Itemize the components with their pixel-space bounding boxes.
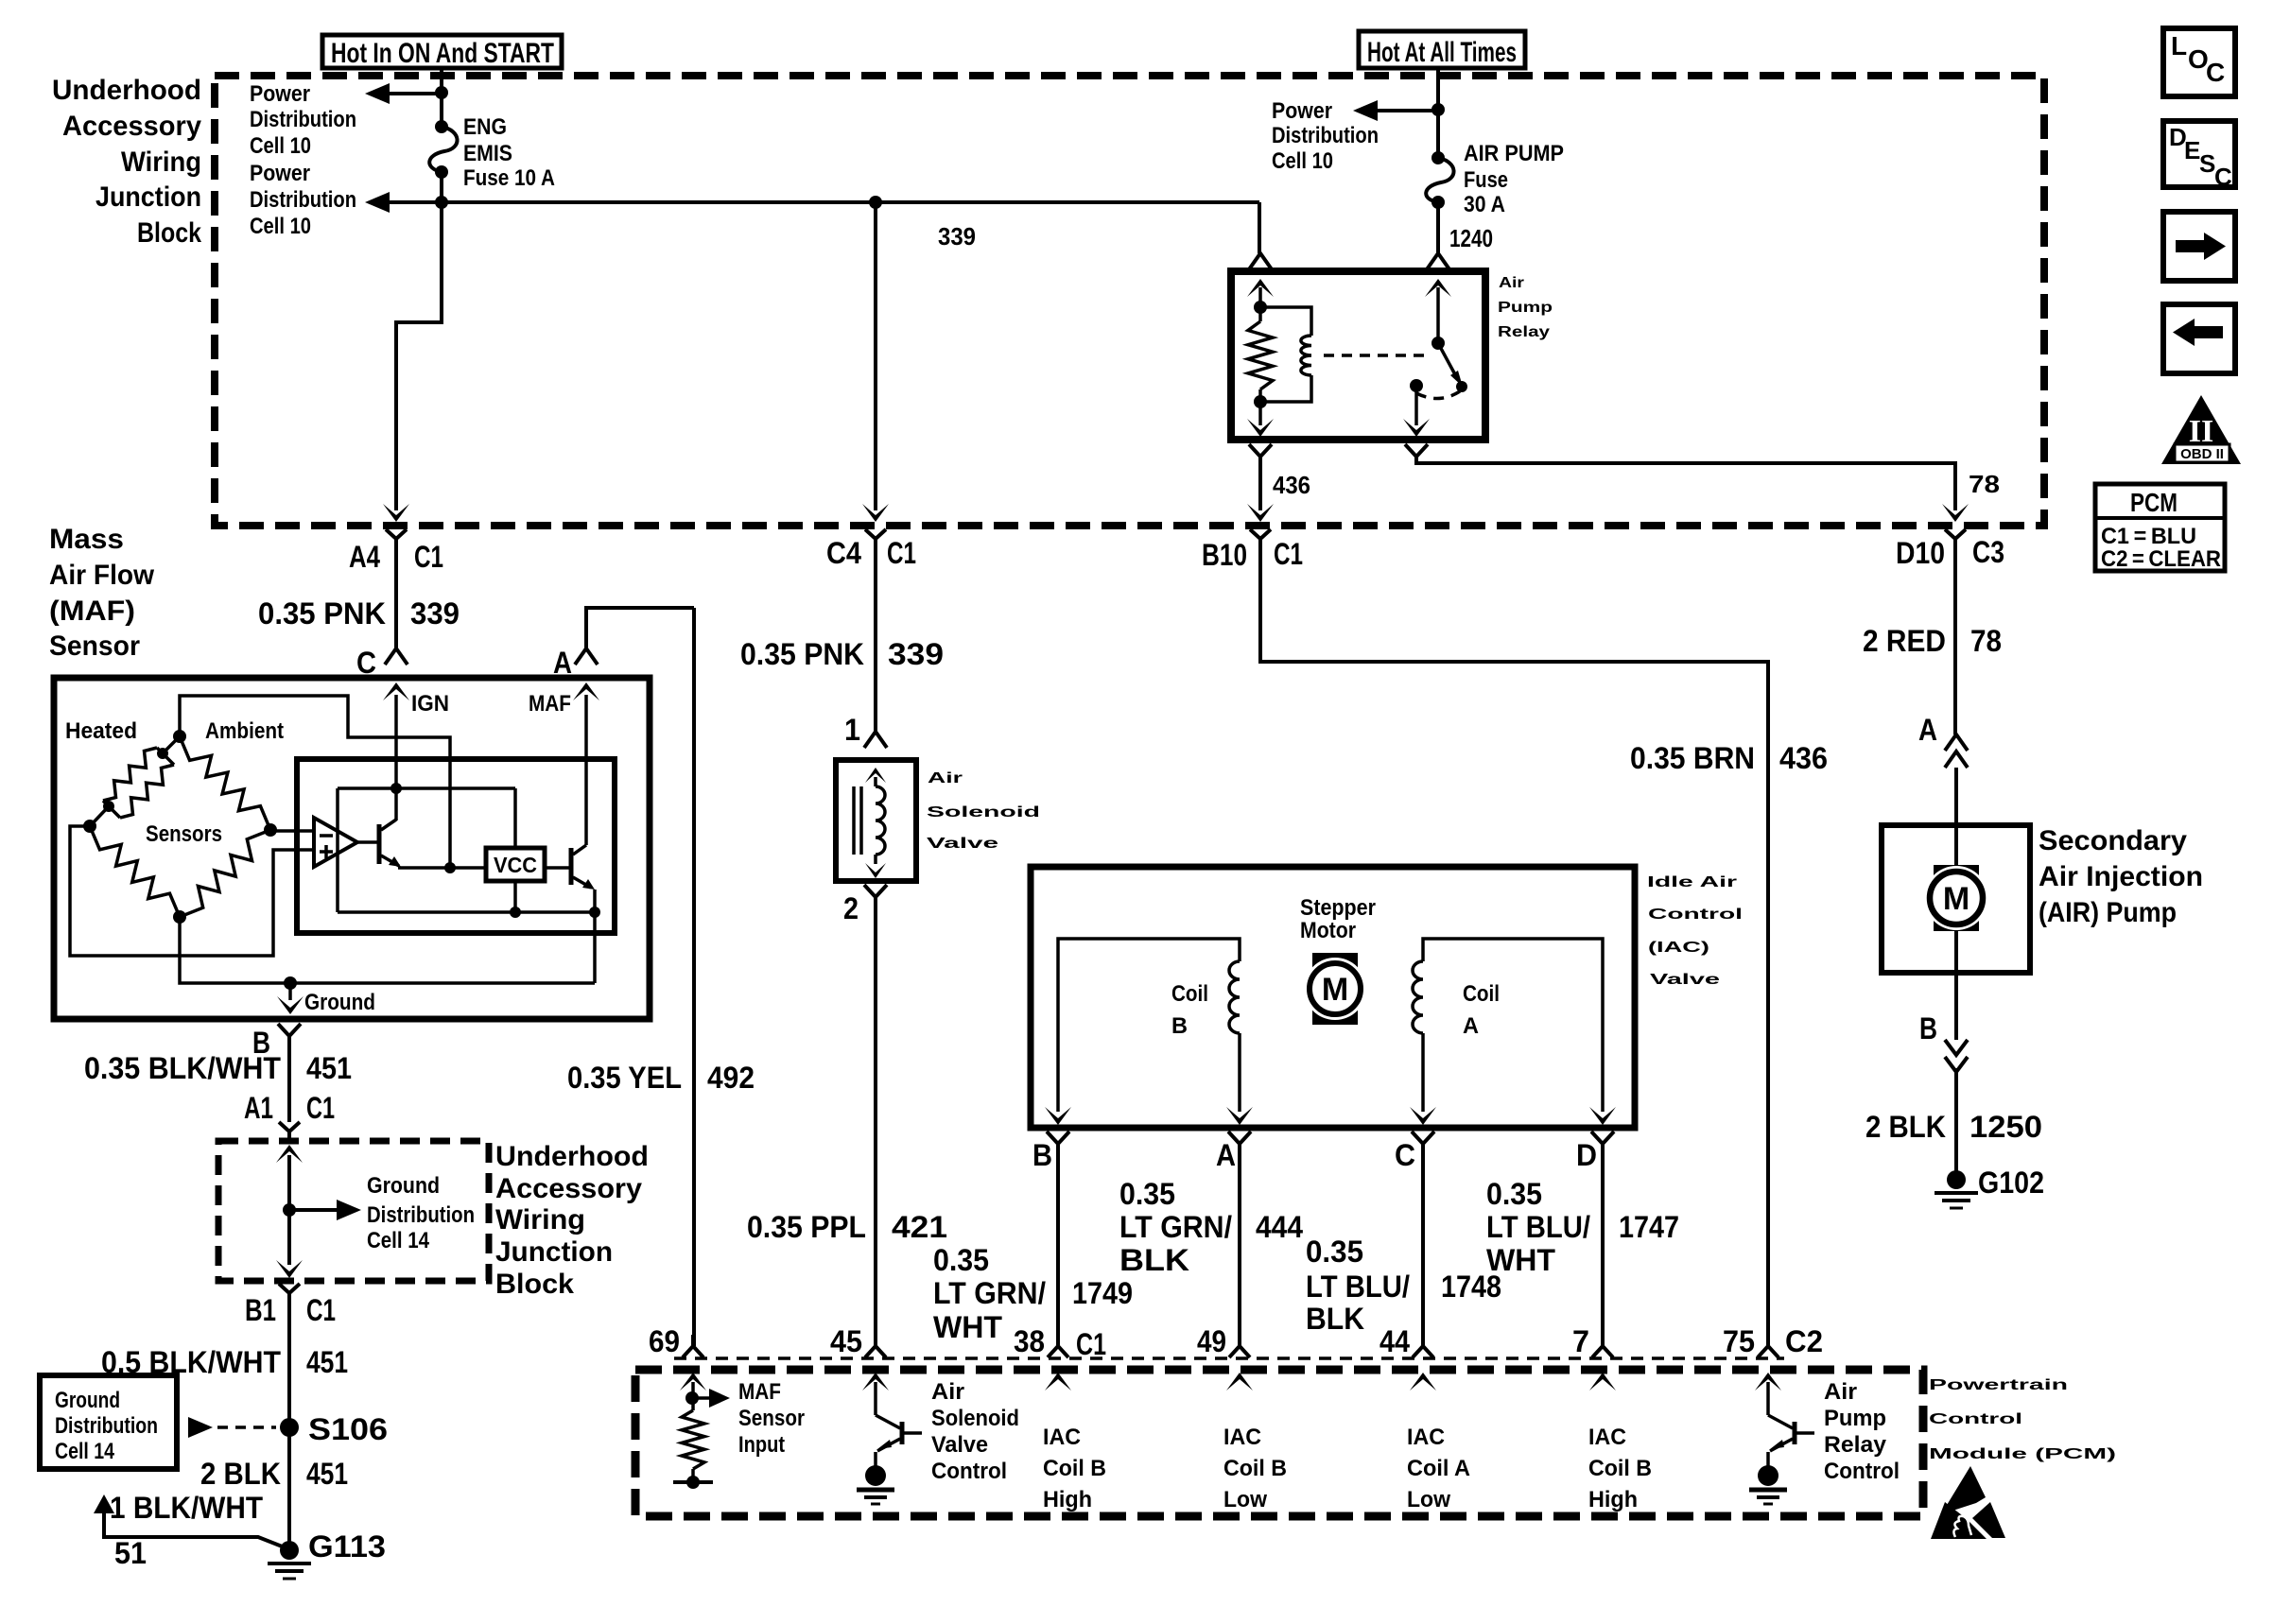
bridge node top xyxy=(157,730,186,759)
IAC coil B xyxy=(1045,939,1253,1125)
svg-text:Relay: Relay xyxy=(1498,324,1550,340)
svg-text:Air: Air xyxy=(1499,275,1524,291)
IAC coil A xyxy=(1410,939,1616,1125)
svg-text:A4: A4 xyxy=(349,540,380,574)
svg-text:LT BLU/: LT BLU/ xyxy=(1486,1210,1590,1244)
svg-text:L: L xyxy=(2171,31,2187,60)
MAF pin MAF arrow xyxy=(529,682,599,717)
title box: Hot At All Times xyxy=(1359,31,1525,68)
svg-text:Block: Block xyxy=(137,217,201,249)
junction block dashed box (Underhood Accessory Wiring) xyxy=(215,76,2044,526)
svg-text:Air: Air xyxy=(931,1379,964,1405)
forward arrow box xyxy=(2163,212,2235,281)
svg-text:Cell 10: Cell 10 xyxy=(250,214,311,239)
svg-text:0.35: 0.35 xyxy=(1306,1235,1363,1269)
connector: MAF pin A xyxy=(553,646,598,680)
MAF sensor case xyxy=(54,678,650,1019)
svg-text:B1: B1 xyxy=(245,1293,276,1327)
svg-text:Low: Low xyxy=(1223,1487,1267,1512)
svg-text:Pump: Pump xyxy=(1824,1406,1886,1431)
arrow: to Power Distribution Cell 10 (upper) xyxy=(250,81,442,159)
svg-text:1250: 1250 xyxy=(1969,1110,2042,1144)
svg-text:Ambient: Ambient xyxy=(205,718,284,744)
connector: MAF pin B xyxy=(252,1024,301,1060)
title box: Hot In ON And START xyxy=(322,35,562,69)
svg-text:B: B xyxy=(1919,1011,1937,1045)
connector B10 / C1 xyxy=(1202,529,1303,572)
PCM connector legend xyxy=(2095,484,2225,572)
LOC legend box xyxy=(2163,28,2235,96)
svg-text:Underhood: Underhood xyxy=(495,1141,649,1172)
connector: IAC pin C xyxy=(1395,1132,1434,1172)
wire into pump xyxy=(1954,768,1958,866)
label: Mass Air Flow (MAF) Sensor xyxy=(49,524,155,662)
svg-text:Cell 14: Cell 14 xyxy=(367,1228,430,1253)
svg-text:G102: G102 xyxy=(1978,1166,2044,1200)
wire 2 RED 78 xyxy=(1863,545,2002,734)
motor M (AIR pump) xyxy=(1924,865,1988,931)
label: IAC Coil B High (38) xyxy=(1043,1425,1106,1512)
svg-text:C1: C1 xyxy=(1274,537,1303,571)
label: Underhood Accessory Wiring Junction Block (2) xyxy=(495,1141,649,1300)
svg-text:A: A xyxy=(553,646,572,680)
svg-text:Low: Low xyxy=(1407,1487,1450,1512)
transistor Q2 (output) xyxy=(545,695,595,983)
splice link to S106 xyxy=(188,1417,276,1438)
svg-text:C1: C1 xyxy=(414,540,443,574)
PCM pin 69 connector xyxy=(649,1324,706,1391)
svg-text:IAC: IAC xyxy=(1407,1425,1445,1450)
ground distribution branch (in box 2) xyxy=(276,1145,475,1278)
svg-text:B: B xyxy=(1171,1013,1188,1039)
connector C4 / C1 xyxy=(826,529,916,570)
svg-text:339: 339 xyxy=(410,596,460,631)
connector A (AIR pump) xyxy=(1918,713,1968,768)
label: MAF Sensor Input xyxy=(738,1379,805,1458)
svg-text:Valve: Valve xyxy=(931,1432,988,1458)
svg-text:Distribution: Distribution xyxy=(1272,123,1379,148)
connector: relay pin 85 out xyxy=(1249,444,1272,457)
svg-text:0.35: 0.35 xyxy=(1486,1177,1542,1211)
relay: Air Pump Relay case xyxy=(1231,271,1485,440)
svg-text:IAC: IAC xyxy=(1043,1425,1081,1450)
svg-text:M: M xyxy=(1322,972,1348,1008)
wire A4 to MAF pin C xyxy=(394,545,398,649)
connector: relay pin 86 (coil feed) xyxy=(1249,253,1272,269)
DESC legend box xyxy=(2163,121,2235,191)
svg-text:44: 44 xyxy=(1379,1324,1410,1358)
wire 0.35 BRN 436 to PCM pin 75 xyxy=(1260,545,1828,1346)
svg-text:2 BLK: 2 BLK xyxy=(200,1457,281,1491)
wire label 0.35 PNK 339 (A4) xyxy=(258,596,460,631)
connector: MAF pin C xyxy=(356,646,408,680)
svg-text:IAC: IAC xyxy=(1223,1425,1261,1450)
svg-text:A: A xyxy=(1463,1013,1479,1039)
label: Underhood Accessory Wiring Junction Block xyxy=(52,75,201,249)
svg-text:Relay: Relay xyxy=(1824,1432,1887,1458)
svg-text:S: S xyxy=(2199,149,2215,178)
splice S106 xyxy=(280,1412,388,1446)
transistor: Air Pump Relay Control driver xyxy=(1749,1382,1814,1504)
wire 1 BLK/WHT 51 xyxy=(94,1491,289,1570)
svg-text:M: M xyxy=(1943,881,1969,917)
svg-text:C1: C1 xyxy=(306,1091,335,1125)
svg-text:Secondary: Secondary xyxy=(2039,825,2187,856)
connector A1 / C1 xyxy=(244,1091,335,1138)
svg-text:Power: Power xyxy=(250,81,310,107)
connector: solenoid pin 2 xyxy=(843,885,887,925)
svg-text:69: 69 xyxy=(649,1324,680,1358)
svg-text:ENG: ENG xyxy=(463,114,507,140)
svg-text:D: D xyxy=(1576,1138,1597,1172)
svg-text:Coil A: Coil A xyxy=(1407,1456,1470,1481)
wire: bridge bottom to ground rail xyxy=(180,917,595,983)
PCM pin 49 connector xyxy=(1197,1324,1253,1391)
svg-text:A1: A1 xyxy=(244,1091,273,1125)
svg-text:Power: Power xyxy=(1272,98,1332,124)
svg-text:C1: C1 xyxy=(887,536,916,570)
svg-text:51: 51 xyxy=(114,1536,147,1570)
svg-text:7: 7 xyxy=(1572,1324,1589,1358)
svg-text:78: 78 xyxy=(1970,624,2002,658)
svg-text:Cell 10: Cell 10 xyxy=(250,133,311,159)
svg-text:Wiring: Wiring xyxy=(121,147,201,178)
label: IAC Coil A Low (44) xyxy=(1407,1425,1470,1512)
wire 0.35 BLK/WHT 451 xyxy=(84,1036,352,1122)
svg-text:444: 444 xyxy=(1256,1210,1303,1244)
MAF hybrid module box xyxy=(297,759,615,933)
connector: solenoid pin 1 xyxy=(844,713,887,748)
svg-text:Hot At All Times: Hot At All Times xyxy=(1367,37,1517,68)
svg-text:Control: Control xyxy=(1648,907,1743,923)
svg-text:IGN: IGN xyxy=(411,691,449,717)
label: Stepper Motor xyxy=(1300,895,1376,943)
wire 0.35 LT BLU/BLK 1748 (pin C to 44) xyxy=(1306,1144,1501,1346)
Secondary Air Injection (AIR) Pump case xyxy=(1882,825,2030,973)
svg-text:Air: Air xyxy=(1824,1379,1857,1405)
svg-text:Sensor: Sensor xyxy=(738,1406,805,1431)
svg-text:Coil B: Coil B xyxy=(1043,1456,1106,1481)
svg-text:PCM: PCM xyxy=(2130,488,2178,517)
svg-text:C3: C3 xyxy=(1972,535,2004,569)
svg-text:Cell 14: Cell 14 xyxy=(55,1439,115,1464)
OBD II symbol xyxy=(2161,395,2241,464)
svg-text:BLK: BLK xyxy=(1119,1243,1189,1277)
label: Secondary Air Injection (AIR) Pump xyxy=(2039,825,2203,928)
bridge node left xyxy=(83,801,114,833)
svg-text:0.35 BLK/WHT: 0.35 BLK/WHT xyxy=(84,1051,281,1085)
svg-text:436: 436 xyxy=(1779,741,1828,775)
arrow: to Power Distribution Cell 10 (right) xyxy=(1272,98,1438,174)
svg-text:S106: S106 xyxy=(308,1412,388,1446)
PCM pin 75 connector xyxy=(1723,1324,1781,1391)
fuse: AIR PUMP Fuse 30 A xyxy=(1426,141,1564,217)
svg-text:High: High xyxy=(1588,1487,1638,1512)
relay coil bottom xyxy=(1247,389,1274,437)
svg-text:75: 75 xyxy=(1723,1324,1755,1358)
svg-text:38: 38 xyxy=(1014,1324,1045,1358)
svg-text:Ground: Ground xyxy=(367,1173,440,1199)
svg-text:2: 2 xyxy=(843,891,859,925)
svg-text:1: 1 xyxy=(844,713,860,747)
svg-text:(AIR) Pump: (AIR) Pump xyxy=(2039,897,2177,928)
svg-text:C1: C1 xyxy=(1076,1327,1106,1361)
svg-text:WHT: WHT xyxy=(1486,1243,1555,1277)
relay coil winding xyxy=(1260,307,1311,402)
svg-text:Coil B: Coil B xyxy=(1588,1456,1652,1481)
svg-text:Junction: Junction xyxy=(95,181,201,213)
relay coil branch (pin to resistor) xyxy=(1247,279,1274,321)
svg-text:Distribution: Distribution xyxy=(55,1413,158,1439)
solenoid winding xyxy=(854,768,886,878)
connector: IAC pin D xyxy=(1576,1132,1614,1172)
svg-text:Sensor: Sensor xyxy=(49,631,140,662)
MAF sensor input resistor (PCM) xyxy=(673,1382,730,1489)
air solenoid valve case xyxy=(836,760,916,881)
svg-text:Stepper: Stepper xyxy=(1300,895,1376,921)
svg-text:Block: Block xyxy=(495,1269,574,1300)
svg-text:OBD II: OBD II xyxy=(2180,446,2224,462)
svg-text:1749: 1749 xyxy=(1072,1276,1133,1310)
svg-text:BLK: BLK xyxy=(1306,1302,1364,1336)
svg-text:E: E xyxy=(2184,136,2200,164)
wire: ignition feed from Hot In ON And START xyxy=(440,68,443,127)
connector B1 / C1 xyxy=(245,1284,336,1327)
svg-text:0.35 PPL: 0.35 PPL xyxy=(747,1210,866,1244)
transistor: Air Solenoid Valve Control driver xyxy=(857,1382,922,1504)
wire 0.5 BLK/WHT 451 xyxy=(101,1300,348,1550)
svg-text:Pump: Pump xyxy=(1498,300,1553,316)
svg-text:Solenoid: Solenoid xyxy=(927,804,1040,821)
wire 78 relay to junction block edge xyxy=(1416,457,2000,522)
bridge node bottom xyxy=(173,910,186,924)
svg-text:Ground: Ground xyxy=(55,1388,120,1413)
svg-text:Control: Control xyxy=(1929,1411,2022,1427)
svg-text:A: A xyxy=(1918,713,1937,747)
node: 339 branch to C4 xyxy=(869,196,882,209)
label: IAC Coil B Low (49) xyxy=(1223,1425,1287,1512)
svg-text:421: 421 xyxy=(892,1210,947,1244)
svg-text:Wiring: Wiring xyxy=(495,1204,585,1235)
resistor (relay suppression) xyxy=(1248,321,1273,389)
label: Air Pump Relay Control xyxy=(1824,1379,1900,1484)
svg-text:0.35 YEL: 0.35 YEL xyxy=(567,1061,682,1095)
svg-text:Powertrain: Powertrain xyxy=(1929,1377,2068,1393)
svg-text:49: 49 xyxy=(1197,1324,1226,1358)
wire: 339 drop to A4 xyxy=(383,202,442,522)
node: battery feed junction xyxy=(1431,103,1445,116)
PCM dashed box xyxy=(635,1370,1923,1516)
svg-text:A: A xyxy=(1216,1138,1236,1172)
connector: relay pin 30 (battery) xyxy=(1427,253,1449,269)
wire 0.35 YEL 492 to PCM 69 xyxy=(567,608,755,1346)
wire: 339 drop to C4 xyxy=(862,202,889,522)
svg-text:492: 492 xyxy=(707,1061,755,1095)
svg-text:Distribution: Distribution xyxy=(250,107,356,132)
arrow: to Power Distribution Cell 10 (lower) + 339 bus xyxy=(250,161,1259,239)
svg-text:MAF: MAF xyxy=(738,1379,781,1405)
svg-text:451: 451 xyxy=(306,1345,348,1379)
svg-text:339: 339 xyxy=(888,637,944,671)
connector D10 / C3 xyxy=(1896,529,2004,570)
svg-text:Input: Input xyxy=(738,1432,785,1458)
svg-text:Cell 10: Cell 10 xyxy=(1272,148,1333,174)
wire: bridge right to op-amp - xyxy=(270,829,314,833)
label: Powertrain Control Module (PCM) xyxy=(1929,1377,2116,1462)
svg-text:451: 451 xyxy=(306,1051,352,1085)
label: Air Solenoid Valve Control xyxy=(931,1379,1019,1484)
connector: IAC pin A xyxy=(1216,1132,1251,1172)
svg-text:B: B xyxy=(1032,1138,1052,1172)
svg-text:C2: C2 xyxy=(1785,1324,1823,1358)
transistor Q1 xyxy=(357,820,486,873)
svg-text:Solenoid: Solenoid xyxy=(931,1406,1019,1431)
resistor sensors lower-right xyxy=(180,830,270,917)
svg-text:IAC: IAC xyxy=(1588,1425,1626,1450)
svg-text:2 BLK: 2 BLK xyxy=(1865,1110,1946,1144)
relay switch xyxy=(1403,279,1467,437)
wire 0.35 LT GRN/BLK 444 (pin A to 49) xyxy=(1119,1144,1303,1346)
svg-text:B10: B10 xyxy=(1202,538,1247,572)
svg-text:Valve: Valve xyxy=(927,836,998,852)
svg-text:Underhood: Underhood xyxy=(52,75,201,106)
svg-text:436: 436 xyxy=(1273,471,1310,499)
svg-text:LT GRN/: LT GRN/ xyxy=(933,1276,1046,1310)
svg-text:C4: C4 xyxy=(826,536,861,570)
wire: fuse output xyxy=(440,172,443,202)
svg-text:Power: Power xyxy=(250,161,310,186)
svg-text:Control: Control xyxy=(1824,1459,1900,1484)
svg-text:1240: 1240 xyxy=(1449,224,1493,252)
VCC regulator xyxy=(486,848,545,881)
wire 0.35 LT BLU/WHT 1747 (pin D to 7) xyxy=(1486,1144,1679,1346)
svg-text:Module (PCM): Module (PCM) xyxy=(1929,1446,2116,1462)
wire 436 relay to junction block edge xyxy=(1247,457,1310,522)
svg-text:451: 451 xyxy=(306,1457,348,1491)
ground G102 xyxy=(1935,1166,2044,1208)
svg-text:Air Injection: Air Injection xyxy=(2039,861,2203,892)
fuse: ENG EMIS Fuse 10 A xyxy=(429,114,555,191)
svg-text:Coil B: Coil B xyxy=(1223,1456,1287,1481)
svg-text:Accessory: Accessory xyxy=(62,111,201,142)
svg-text:2 RED: 2 RED xyxy=(1863,624,1946,658)
back arrow box xyxy=(2163,304,2235,373)
svg-text:(IAC): (IAC) xyxy=(1648,940,1709,956)
MAF pin IGN arrow xyxy=(383,682,449,717)
svg-text:Heated: Heated xyxy=(65,718,137,744)
ground distribution cell 14 box xyxy=(40,1375,177,1469)
svg-text:Motor: Motor xyxy=(1300,918,1356,943)
svg-text:339: 339 xyxy=(938,222,976,251)
svg-text:Ground: Ground xyxy=(304,990,375,1015)
PCM pin 7 connector xyxy=(1572,1324,1616,1391)
svg-text:Junction: Junction xyxy=(495,1236,613,1268)
svg-text:Idle Air: Idle Air xyxy=(1647,874,1737,890)
relay actuation dashed link xyxy=(1324,354,1428,357)
svg-text:Mass: Mass xyxy=(49,524,124,555)
svg-text:78: 78 xyxy=(1969,470,2000,498)
wire 2 BLK 451 xyxy=(200,1457,348,1491)
ground node + arrow xyxy=(277,976,375,1015)
connector: IAC pin B xyxy=(1032,1132,1069,1172)
ESD warning symbol xyxy=(1931,1466,2005,1539)
wire: bridge left to op-amp + xyxy=(70,826,314,956)
wire C4 to solenoid pin 1 xyxy=(874,545,877,733)
resistor sensors lower-left xyxy=(90,826,180,917)
bias rail xyxy=(338,881,600,918)
svg-text:0.35 PNK: 0.35 PNK xyxy=(740,637,864,671)
bridge node right xyxy=(264,823,277,837)
svg-text:Coil: Coil xyxy=(1463,981,1500,1007)
svg-text:Air Flow: Air Flow xyxy=(49,560,155,591)
svg-text:LT BLU/: LT BLU/ xyxy=(1306,1270,1410,1304)
connector B (AIR pump) xyxy=(1919,1011,1968,1072)
node: ignition feed junction xyxy=(435,86,448,99)
connector: relay pin 87 out xyxy=(1405,444,1428,457)
svg-text:0.35: 0.35 xyxy=(933,1243,989,1277)
wire 0.35 PPL 421 to PCM 45 xyxy=(747,897,947,1346)
wire: battery feed from Hot At All Times xyxy=(1436,68,1440,158)
junction block 2 dashed box xyxy=(218,1141,489,1281)
op-amp U1 xyxy=(314,818,357,867)
svg-text:C: C xyxy=(2206,58,2225,87)
svg-text:LT GRN/: LT GRN/ xyxy=(1119,1210,1232,1244)
svg-text:0.35 BRN: 0.35 BRN xyxy=(1630,741,1755,775)
PCM pin 45 connector xyxy=(830,1324,889,1391)
IAC valve case xyxy=(1031,867,1635,1128)
svg-text:Coil: Coil xyxy=(1171,981,1208,1007)
wire 0.35 LT GRN/WHT 1749 (pin B to 38) xyxy=(933,1144,1133,1346)
svg-text:WHT: WHT xyxy=(933,1310,1002,1344)
svg-text:Distribution: Distribution xyxy=(367,1202,475,1228)
svg-text:G113: G113 xyxy=(308,1529,386,1564)
wire label 0.35 PNK 339 (C4) xyxy=(740,637,944,671)
svg-text:Valve: Valve xyxy=(1650,972,1720,988)
svg-text:Fuse: Fuse xyxy=(1464,167,1508,193)
svg-text:AIR PUMP: AIR PUMP xyxy=(1464,141,1564,166)
svg-text:C: C xyxy=(1395,1138,1415,1172)
resistor ambient xyxy=(180,736,270,830)
svg-text:C2 = CLEAR: C2 = CLEAR xyxy=(2101,546,2221,572)
resistor heated (parallel pair) xyxy=(103,748,174,818)
svg-text:D10: D10 xyxy=(1896,536,1945,570)
svg-text:EMIS: EMIS xyxy=(463,141,512,166)
label: IAC Coil B High (7) xyxy=(1588,1425,1652,1512)
wire: MAF A up-over to YEL run xyxy=(586,608,694,648)
svg-text:1 BLK/WHT: 1 BLK/WHT xyxy=(110,1491,263,1525)
svg-text:C1: C1 xyxy=(306,1293,336,1327)
svg-text:C1 = BLU: C1 = BLU xyxy=(2101,524,2196,549)
svg-text:MAF: MAF xyxy=(529,691,571,717)
svg-text:VCC: VCC xyxy=(494,853,537,877)
svg-text:Fuse 10 A: Fuse 10 A xyxy=(463,165,555,191)
wire 1240 to relay xyxy=(1438,202,1493,253)
PCM pin 44 connector xyxy=(1379,1324,1436,1391)
PCM pin 38 connector xyxy=(1014,1324,1071,1391)
wire 2 BLK 1250 xyxy=(1865,1068,2042,1172)
IGN internal run xyxy=(338,695,515,912)
svg-text:C: C xyxy=(2214,163,2232,191)
svg-text:45: 45 xyxy=(830,1324,862,1358)
ground G113 xyxy=(268,1529,386,1579)
svg-text:High: High xyxy=(1043,1487,1092,1512)
wire pump to B xyxy=(1954,930,1958,1040)
svg-text:Sensors: Sensors xyxy=(146,821,222,847)
svg-text:Accessory: Accessory xyxy=(495,1173,642,1204)
svg-text:Control: Control xyxy=(931,1459,1007,1484)
svg-text:0.35: 0.35 xyxy=(1119,1177,1175,1211)
svg-text:(MAF): (MAF) xyxy=(49,596,135,627)
